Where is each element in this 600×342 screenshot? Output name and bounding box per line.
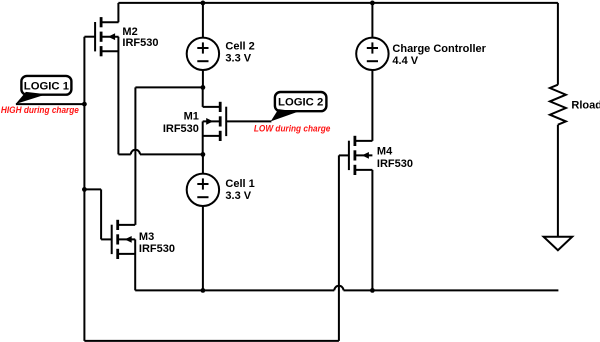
wire M3 gate branch horizontal [84,188,101,190]
node junction LOGIC1 net [82,102,87,107]
svg-text:Cell 2: Cell 2 [225,41,254,53]
node LOGIC 2 tail [271,109,298,121]
transistor M1 [203,102,227,141]
svg-text:HIGH during charge: HIGH during charge [1,105,80,116]
node junction M4 source / bottom wire [370,288,375,293]
svg-text:M4: M4 [377,146,393,158]
node LOGIC 2 [275,92,327,111]
svg-text:IRF530: IRF530 [139,243,175,255]
node junction M1 source / Cell1 [201,152,206,157]
node junction LOGIC1 net / M3 branch [82,187,87,192]
wire M2 drain to top rail [117,3,119,22]
svg-text:Charge Controller: Charge Controller [392,43,486,55]
wire M4 drain up [371,70,373,141]
wire hop over M1-M3 vertical [131,150,140,155]
wire M3 source down [134,239,136,290]
node junction top rail / Charge Controller [370,0,375,5]
wire M3 gate branch vertical [100,189,102,239]
wire LOGIC1 tail to net [16,103,85,105]
node LOGIC 1 [21,76,71,95]
svg-text:M1: M1 [184,111,199,123]
wire M2 source to M1 source right part [140,153,203,155]
wire LOGIC1 net vertical [83,37,85,341]
svg-text:3.3 V: 3.3 V [225,53,251,65]
svg-text:IRF530: IRF530 [377,158,413,170]
wire Charge Controller top [371,3,373,38]
voltage source Charge Controller [356,38,388,70]
wire M1 box left vertical to M3 drain [134,87,136,225]
wire M3 gate lead [101,238,112,240]
svg-text:LOW during charge: LOW during charge [254,124,331,135]
node junction Cell2 / M1 drain [201,85,206,90]
svg-text:3.3 V: 3.3 V [225,190,251,202]
wire M4 gate lead [339,154,349,156]
wire Cell1 top [202,154,204,173]
wire M2 source to M1 source left part [118,153,130,155]
svg-text:LOGIC 1: LOGIC 1 [24,80,69,92]
wire top rail [118,2,558,4]
wire bottom LOGIC1 rail [84,340,339,342]
svg-text:Rload: Rload [571,100,600,112]
node junction Cell1 / bottom wire [201,288,206,293]
transistor M2 [95,17,119,56]
voltage source Cell 1 [187,174,219,206]
svg-text:Cell 1: Cell 1 [225,178,254,190]
svg-text:IRF530: IRF530 [122,37,158,49]
node junction top rail / Cell 2 [201,0,206,5]
voltage source Cell 2 [187,38,219,70]
wire Rload to ground [557,125,559,237]
wire M4 gate vertical [338,155,340,341]
transistor M4 [349,136,373,175]
wire M1 box top [135,86,203,88]
wire hop over M4 gate vertical [334,286,343,291]
svg-text:4.4 V: 4.4 V [392,55,418,67]
wire right branch down to Rload [557,3,559,85]
transistor M3 [112,220,135,259]
svg-text:LOGIC 2: LOGIC 2 [278,97,323,109]
svg-text:IRF530: IRF530 [163,123,199,135]
wire bottom net left part [135,289,334,291]
resistor Rload [550,85,566,125]
wire M1 drain up [202,87,204,107]
svg-text:M3: M3 [139,231,154,243]
wire M2 source down [117,37,119,155]
wire bottom net right part [344,289,559,291]
wire M4 source down [371,170,373,291]
wire M1 source down [202,121,204,154]
wire Cell1 bottom [202,206,204,291]
wire Cell2 bottom [202,70,204,87]
wire Cell2 top [202,3,204,38]
wire M2 gate lead [84,36,95,38]
node LOGIC 1 tail [16,92,47,104]
wire M1 gate lead [226,120,271,122]
ground [544,237,573,251]
